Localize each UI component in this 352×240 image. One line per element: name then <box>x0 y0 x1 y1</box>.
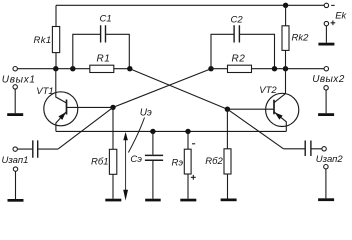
node: emitter / Cэ <box>150 129 155 134</box>
wire: cross-coupling node1 to VT2 base <box>130 69 228 110</box>
node: R2/C2 left <box>208 66 213 71</box>
wire: node2 to R2 left <box>211 68 228 70</box>
wire: Rk1 bottom to collector node <box>55 53 57 69</box>
wire: emitter rail <box>56 130 286 132</box>
svg-text:C1: C1 <box>100 14 112 25</box>
terminal: Uзап2 ground lead <box>324 165 328 169</box>
ground (Uвых1) <box>7 113 23 116</box>
node: Rk2 / VT2 collector <box>283 66 288 71</box>
resistor Rб2 <box>226 109 228 149</box>
node: VT1 base <box>110 105 115 110</box>
leader arc from Uэ label to arrow <box>128 118 144 153</box>
wire: top supply rail <box>56 5 324 26</box>
wire: left output node rail <box>17 68 89 70</box>
svg-text:VT2: VT2 <box>259 85 277 96</box>
wire: Uзап2 terminal to ground <box>325 169 327 198</box>
svg-text:Rб2: Rб2 <box>205 156 223 167</box>
label: minus sign of Ek <box>331 4 334 6</box>
svg-text:R1: R1 <box>97 54 111 65</box>
wire: Uвых1 terminal to ground <box>14 89 16 113</box>
terminal: Uвых2 <box>324 67 328 71</box>
terminal: Uвых1 <box>13 67 17 71</box>
capacitor C2 <box>211 34 275 68</box>
resistor R1 <box>90 65 114 72</box>
ground (Uзап1) <box>8 199 24 202</box>
svg-text:Ek: Ek <box>335 11 347 22</box>
wire: +Ek to ground <box>325 26 327 43</box>
wire: coupling cap to VT1 base <box>58 107 113 149</box>
resistor Rэ <box>187 131 189 149</box>
terminal: Uвых1 ground lead <box>13 85 17 89</box>
terminal: Uзап2 <box>322 147 326 151</box>
svg-text:Uвых2: Uвых2 <box>312 74 344 85</box>
svg-text:Uвых1: Uвых1 <box>2 74 36 85</box>
svg-text:R2: R2 <box>232 54 246 65</box>
ground (Ek) <box>318 43 334 46</box>
resistor Rk1 <box>52 27 59 53</box>
ground (Rб1) <box>105 199 121 202</box>
svg-text:Uзап1: Uзап1 <box>2 155 29 166</box>
wire: R1 right to node <box>114 68 130 70</box>
resistor R2 <box>228 65 252 72</box>
svg-text:Uэ: Uэ <box>140 107 152 118</box>
wire: R2 right to Uвых2 <box>252 68 325 70</box>
wire: cross-coupling node2 to VT1 base <box>113 69 211 108</box>
svg-text:Rk2: Rk2 <box>292 32 310 43</box>
label: minus polarity at Rэ top <box>192 143 195 145</box>
node: VT2 base <box>225 107 230 112</box>
svg-text:Uзап2: Uзап2 <box>316 154 344 165</box>
svg-text:Cэ: Cэ <box>130 154 142 165</box>
terminal: -Ek <box>324 3 328 7</box>
svg-text:Rk1: Rk1 <box>34 35 52 46</box>
label: plus polarity at Rэ bottom <box>191 175 196 180</box>
node: R1/C1 right <box>127 66 132 71</box>
coupling capacitor (Uзап2 input) <box>227 109 283 149</box>
terminal: Uвых2 ground lead <box>324 86 328 90</box>
coupling capacitor (Uзап1 input) <box>13 147 17 151</box>
capacitor C1 <box>73 34 130 68</box>
svg-text:C2: C2 <box>231 14 244 25</box>
ground (Rб2) <box>221 199 237 202</box>
capacitor Cэ <box>152 131 154 154</box>
wire: Uзап1 terminal to ground <box>15 171 17 199</box>
terminal: +Ek <box>324 21 328 25</box>
resistor Rk2 <box>285 5 287 26</box>
node: junction top rail / Rk2 <box>283 3 288 8</box>
resistor Rб1 <box>112 107 114 149</box>
wire: Uвых2 terminal to ground <box>325 90 327 113</box>
svg-text:Rб1: Rб1 <box>91 157 109 168</box>
svg-text:VT1: VT1 <box>36 86 53 97</box>
terminal: Uзап1 ground lead <box>13 167 17 171</box>
node: C1/R1 left <box>70 66 75 71</box>
label: plus sign of Ek <box>331 21 336 26</box>
node: emitter / Rэ <box>185 129 190 134</box>
ground (Uвых2) <box>318 113 334 116</box>
node: C2 right <box>272 66 277 71</box>
wire: Rk2 bottom to collector node <box>285 50 287 68</box>
ground (Uзап2) <box>318 198 334 201</box>
svg-text:Rэ: Rэ <box>172 157 184 168</box>
arrow: Uэ measurement double arrow <box>125 138 127 194</box>
transistor VT1 <box>44 92 78 126</box>
node: Rk1 / VT1 collector <box>53 66 58 71</box>
transistor VT2 <box>266 93 299 126</box>
ground (Rэ) <box>180 199 196 202</box>
ground (Cэ) <box>145 199 161 202</box>
